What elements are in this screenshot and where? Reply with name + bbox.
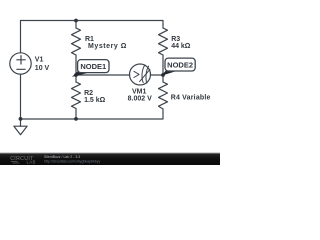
- svg-text:NODE2: NODE2: [167, 60, 193, 69]
- svg-text:1.5 kΩ: 1.5 kΩ: [84, 97, 106, 104]
- svg-text:R1: R1: [85, 36, 94, 43]
- svg-text:R2: R2: [84, 90, 93, 97]
- svg-text:LAB: LAB: [27, 160, 36, 165]
- svg-text:VM1: VM1: [132, 88, 147, 95]
- svg-text:R3: R3: [171, 36, 180, 43]
- svg-text:R4 Variable: R4 Variable: [171, 94, 211, 101]
- svg-text:44 kΩ: 44 kΩ: [171, 43, 191, 50]
- svg-text:V1: V1: [35, 57, 44, 64]
- svg-text:NODE1: NODE1: [80, 62, 106, 71]
- svg-text:http://circuitlab.com/c/hygbka: http://circuitlab.com/c/hygbkapbkbyy: [44, 159, 100, 163]
- svg-text:10 V: 10 V: [35, 65, 50, 72]
- svg-text:Mystery Ω: Mystery Ω: [88, 43, 127, 50]
- svg-text:8.002 V: 8.002 V: [128, 95, 152, 102]
- svg-text:SilentBuzz / Lab 2 - 3.3: SilentBuzz / Lab 2 - 3.3: [44, 155, 80, 159]
